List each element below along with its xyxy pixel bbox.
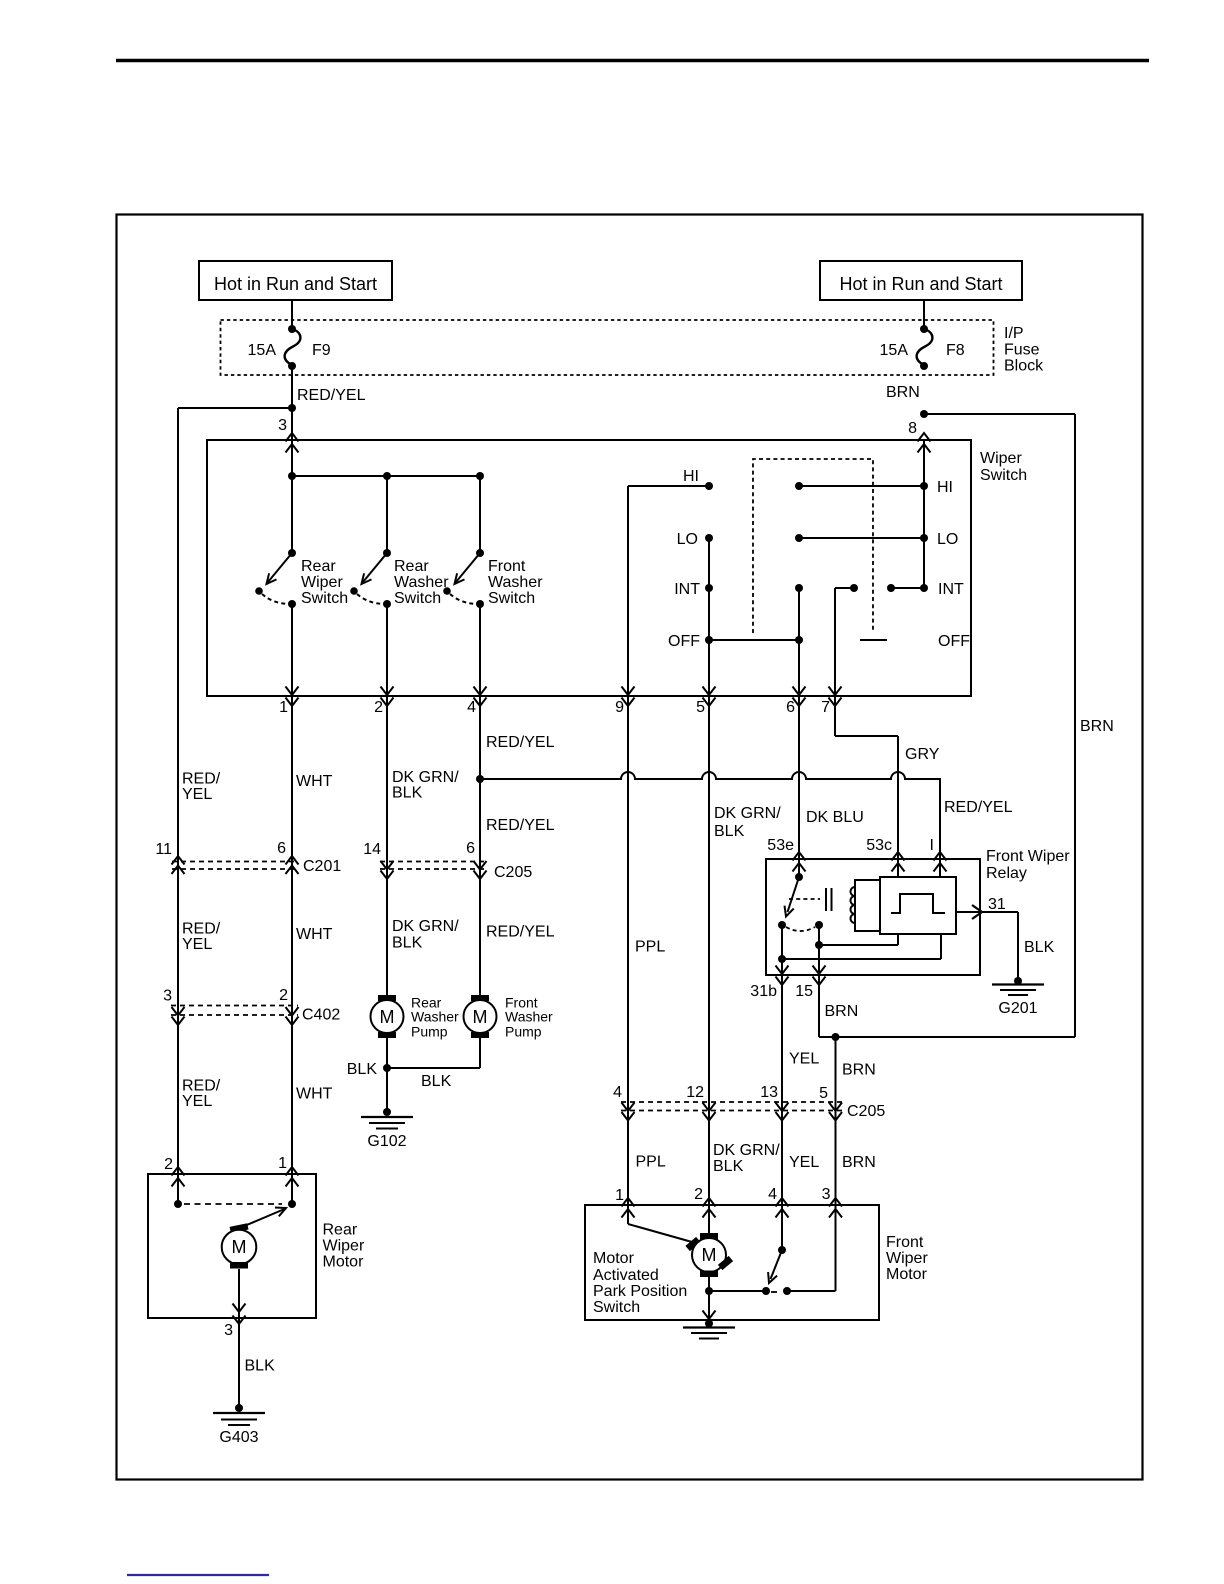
svg-text:BLK: BLK	[392, 785, 423, 802]
svg-text:3: 3	[224, 1322, 233, 1339]
svg-text:C205: C205	[494, 864, 532, 881]
svg-text:OFF: OFF	[668, 633, 700, 650]
svg-text:4: 4	[768, 1186, 777, 1203]
relay timer box	[880, 877, 956, 934]
svg-text:YEL: YEL	[789, 1051, 819, 1068]
svg-text:7: 7	[821, 699, 830, 716]
relay pin I entry	[934, 852, 947, 861]
connector C205 upper dashed rails	[380, 861, 488, 863]
wire pin6 DK BLU down to relay pin 53e	[798, 696, 800, 859]
svg-text:Switch: Switch	[980, 467, 1027, 484]
svg-text:15: 15	[795, 983, 813, 1000]
relay timer pulse waveform	[891, 894, 945, 913]
svg-text:9: 9	[615, 699, 624, 716]
svg-text:F9: F9	[312, 342, 331, 359]
svg-text:BRN: BRN	[1080, 718, 1114, 735]
relay wire to pin 15	[818, 925, 820, 975]
svg-text:2: 2	[279, 987, 288, 1004]
C205 lower pin 12 arrows	[703, 1103, 716, 1112]
svg-text:Washer: Washer	[394, 574, 449, 591]
front motor case ground	[705, 1320, 713, 1328]
svg-text:M: M	[473, 1007, 488, 1027]
svg-text:BLK: BLK	[245, 1358, 276, 1375]
svg-text:6: 6	[786, 699, 795, 716]
svg-text:Wiper: Wiper	[980, 450, 1022, 467]
wire pin1 WHT down to rear wiper motor pin 1	[291, 696, 293, 1174]
wire from left Hot box to fuse F9	[291, 300, 293, 329]
relay contact arm from 53e	[798, 859, 800, 877]
svg-text:RED/: RED/	[182, 921, 221, 938]
svg-text:DK GRN/: DK GRN/	[714, 805, 781, 822]
svg-text:RED/YEL: RED/YEL	[944, 799, 1013, 816]
svg-text:5: 5	[696, 699, 705, 716]
svg-text:G403: G403	[219, 1429, 258, 1446]
svg-text:13: 13	[760, 1084, 778, 1101]
svg-text:C205: C205	[847, 1103, 885, 1120]
wire: pin3 feed inside switch	[291, 440, 293, 553]
svg-text:Switch: Switch	[593, 1299, 640, 1316]
connector C201 dashed rails	[172, 861, 298, 863]
node: BRN junction	[920, 410, 928, 418]
front motor pin 2 entry	[703, 1198, 716, 1207]
svg-text:Rear: Rear	[301, 558, 336, 575]
svg-text:1: 1	[278, 1155, 287, 1172]
connector C402 dashed rails	[171, 1005, 298, 1007]
svg-text:Wiper: Wiper	[301, 574, 343, 591]
wire pin2 DK GRN/BLK down to rear washer pump	[386, 696, 388, 995]
svg-text:31: 31	[988, 896, 1006, 913]
wire BRN branch right and down the right side	[924, 413, 1075, 415]
svg-text:G102: G102	[367, 1133, 406, 1150]
svg-text:Hot in Run and Start: Hot in Run and Start	[214, 274, 377, 294]
svg-text:WHT: WHT	[296, 773, 333, 790]
front motor pin2 lead	[708, 1205, 710, 1233]
svg-text:WHT: WHT	[296, 926, 333, 943]
C205 pin 6 arrows	[474, 861, 487, 870]
common column from pin 8	[923, 440, 925, 588]
svg-text:DK GRN/: DK GRN/	[392, 918, 459, 935]
svg-text:C402: C402	[302, 1007, 340, 1024]
svg-text:BRN: BRN	[886, 384, 920, 401]
front motor ground lead	[708, 1291, 710, 1320]
wire pin5 DK GRN/BLK down to C205 pin 12	[708, 696, 710, 1205]
wire BLK to ground G201	[1017, 912, 1019, 981]
svg-text:Pump: Pump	[505, 1024, 542, 1040]
rear wiper motor M	[230, 1223, 249, 1233]
wire YEL pin 31b down to C205 pin 13	[781, 975, 783, 1205]
svg-text:Fuse: Fuse	[1004, 342, 1040, 359]
svg-text:RED/YEL: RED/YEL	[486, 734, 555, 751]
svg-text:31b: 31b	[750, 983, 777, 1000]
svg-text:15A: 15A	[248, 342, 277, 359]
relay pin 15 exit	[813, 966, 826, 975]
page top rule	[116, 59, 1149, 63]
C201 pin 11 arrows	[172, 856, 185, 865]
svg-text:6: 6	[277, 840, 286, 857]
svg-text:8: 8	[908, 420, 917, 437]
C205 lower pin 4 arrows	[622, 1103, 635, 1112]
exit arrows pins 9 5 6 7	[622, 687, 635, 696]
rear motor pin 1 entry	[286, 1167, 299, 1176]
svg-text:1: 1	[279, 699, 288, 716]
svg-text:OFF: OFF	[938, 633, 970, 650]
C205 pin 14 arrows	[381, 861, 394, 870]
fuse F8 15A	[920, 325, 928, 333]
front motor pin 3 entry	[829, 1198, 842, 1207]
INT row contacts and pin 7	[834, 588, 836, 696]
svg-text:I/P: I/P	[1004, 325, 1024, 342]
svg-text:Wiper: Wiper	[886, 1250, 928, 1267]
svg-text:1: 1	[615, 1187, 624, 1204]
svg-text:Front: Front	[886, 1234, 924, 1251]
svg-text:4: 4	[467, 699, 476, 716]
fuse F9 15A	[288, 325, 296, 333]
svg-text:DK GRN/: DK GRN/	[713, 1142, 780, 1159]
svg-text:Washer: Washer	[488, 574, 543, 591]
svg-text:INT: INT	[674, 581, 700, 598]
svg-text:Switch: Switch	[488, 590, 535, 607]
relay wire to pin 31b	[781, 925, 783, 975]
svg-text:53c: 53c	[866, 837, 892, 854]
svg-text:GRY: GRY	[905, 746, 940, 763]
wire RED/YEL horizontal with hops to relay pin I	[480, 772, 940, 859]
C402 pin 2 arrows	[286, 1007, 299, 1016]
C205 lower pin 5 arrows	[829, 1103, 842, 1112]
rear washer switch contact	[383, 549, 391, 557]
relay output pin 31	[956, 911, 1018, 913]
svg-text:4: 4	[613, 1084, 622, 1101]
svg-text:3: 3	[163, 988, 172, 1005]
intermittent linkage dashed box	[753, 459, 873, 633]
svg-text:WHT: WHT	[296, 1086, 333, 1103]
rear wiper switch contact	[288, 549, 296, 557]
front motor pin 1 entry	[622, 1198, 635, 1207]
front wiper motor box	[585, 1205, 879, 1320]
svg-text:I: I	[930, 837, 934, 854]
svg-text:RED/YEL: RED/YEL	[486, 924, 555, 941]
svg-text:BLK: BLK	[347, 1061, 378, 1078]
svg-text:RED/YEL: RED/YEL	[486, 817, 555, 834]
wire pin7 GRY jog right down to relay pin 53c	[834, 696, 836, 736]
svg-text:BLK: BLK	[714, 823, 745, 840]
front motor pin 4 entry	[776, 1198, 789, 1207]
svg-text:BLK: BLK	[392, 935, 423, 952]
svg-text:PPL: PPL	[635, 939, 665, 956]
front washer pump motor	[471, 995, 489, 1001]
svg-text:YEL: YEL	[182, 936, 212, 953]
relay pin 31b exit	[776, 966, 789, 975]
wire BRN pin 15 down and right join	[818, 975, 820, 1037]
svg-text:BRN: BRN	[825, 1003, 859, 1020]
svg-text:2: 2	[164, 1156, 173, 1173]
svg-text:Relay: Relay	[986, 865, 1027, 882]
svg-text:15A: 15A	[880, 342, 909, 359]
svg-text:Motor: Motor	[593, 1250, 635, 1267]
svg-text:M: M	[702, 1245, 717, 1265]
front washer switch contact	[476, 549, 484, 557]
HI row link middle to common	[795, 482, 803, 490]
relay internal link 31b to timer	[782, 958, 941, 960]
svg-text:Washer: Washer	[505, 1009, 553, 1025]
node: RED/YEL junction	[288, 404, 296, 412]
svg-text:2: 2	[374, 699, 383, 716]
node BRN branch to C205 pin 5	[832, 1033, 840, 1041]
rear motor park switch	[177, 1174, 179, 1204]
svg-text:BRN: BRN	[842, 1062, 876, 1079]
wire RED/YEL from fuse F9	[291, 366, 293, 440]
page bottom blue rule	[127, 1574, 269, 1576]
rear wiper motor box	[148, 1174, 316, 1318]
svg-text:5: 5	[819, 1085, 828, 1102]
svg-text:Activated: Activated	[593, 1267, 659, 1284]
power label box right: Hot in Run and Start	[820, 261, 1022, 300]
svg-text:Washer: Washer	[411, 1009, 459, 1025]
svg-text:Front: Front	[488, 558, 526, 575]
wire BLK from rear pump	[386, 1038, 388, 1112]
intermittent contact bar	[860, 639, 887, 641]
rear motor ground lead pin 3	[238, 1269, 240, 1318]
svg-text:LO: LO	[937, 531, 958, 548]
front wiper relay box	[766, 859, 980, 975]
svg-text:14: 14	[363, 841, 381, 858]
connector C205 lower dashed rails	[621, 1101, 843, 1103]
svg-text:2: 2	[694, 1186, 703, 1203]
I/P fuse block dashed outline	[221, 320, 994, 375]
svg-text:BLK: BLK	[713, 1158, 744, 1175]
relay coil	[855, 880, 880, 931]
svg-text:RED/: RED/	[182, 1078, 221, 1095]
relay pin 53e entry	[793, 852, 806, 861]
wire from right Hot box to fuse F8	[923, 300, 925, 329]
OFF row link to pin 6 column	[709, 639, 799, 641]
svg-text:LO: LO	[677, 531, 698, 548]
ground G201	[1014, 977, 1022, 985]
C205 lower pin 13 arrows	[776, 1103, 789, 1112]
node on pin4 wire RED/YEL branch	[476, 775, 484, 783]
relay actuator dashed link	[789, 898, 820, 900]
relay internal link 15 to timer	[819, 944, 898, 946]
svg-text:PPL: PPL	[636, 1154, 666, 1171]
svg-text:Switch: Switch	[301, 590, 348, 607]
svg-text:DK BLU: DK BLU	[806, 809, 864, 826]
svg-text:HI: HI	[937, 479, 953, 496]
svg-text:YEL: YEL	[789, 1154, 819, 1171]
svg-text:Rear: Rear	[394, 558, 429, 575]
svg-text:11: 11	[155, 841, 172, 858]
svg-text:INT: INT	[938, 581, 964, 598]
LO row link middle to common	[795, 534, 803, 542]
svg-text:RED/: RED/	[182, 771, 221, 788]
power label box left: Hot in Run and Start	[199, 261, 392, 300]
svg-text:DK GRN/: DK GRN/	[392, 769, 459, 786]
pin 8 entry arrows	[918, 433, 931, 442]
relay contact dots and dashed throw	[778, 921, 786, 929]
wire pin4 RED/YEL down to front washer pump	[479, 696, 481, 995]
ground G403	[235, 1404, 243, 1412]
svg-text:RED/YEL: RED/YEL	[297, 387, 366, 404]
svg-text:Hot in Run and Start: Hot in Run and Start	[839, 274, 1002, 294]
pin 3 entry arrows	[286, 433, 299, 442]
svg-text:3: 3	[822, 1186, 831, 1203]
front motor pin1 lead to brush	[627, 1205, 629, 1224]
ground G102	[383, 1108, 391, 1116]
motor activated park position switch	[708, 1272, 710, 1291]
svg-text:Motor: Motor	[323, 1254, 365, 1271]
svg-text:BRN: BRN	[842, 1154, 876, 1171]
svg-text:6: 6	[466, 840, 475, 857]
svg-text:Front Wiper: Front Wiper	[986, 848, 1070, 865]
svg-text:G201: G201	[998, 1000, 1037, 1017]
rear washer pump motor	[378, 995, 396, 1001]
svg-text:53e: 53e	[767, 837, 794, 854]
diagram outer frame	[117, 215, 1143, 1480]
svg-text:Switch: Switch	[394, 590, 441, 607]
relay wires 53c and I to timer	[897, 859, 899, 877]
svg-text:Motor: Motor	[886, 1266, 928, 1283]
wire RED/YEL branch to left, down to rear wiper motor pin 2	[178, 407, 292, 409]
svg-text:M: M	[380, 1007, 395, 1027]
svg-text:BLK: BLK	[421, 1073, 452, 1090]
wire pin9 PPL down to C205 pin 4	[627, 696, 629, 1205]
svg-text:HI: HI	[683, 468, 699, 485]
svg-text:M: M	[232, 1237, 247, 1257]
svg-text:BLK: BLK	[1024, 939, 1055, 956]
svg-text:Block: Block	[1004, 358, 1044, 375]
svg-text:3: 3	[278, 417, 287, 434]
svg-text:F8: F8	[946, 342, 965, 359]
rear motor pin 2 entry	[172, 1167, 185, 1176]
svg-text:Wiper: Wiper	[323, 1238, 365, 1255]
svg-text:Park Position: Park Position	[593, 1283, 687, 1300]
svg-text:12: 12	[686, 1084, 704, 1101]
svg-text:Rear: Rear	[323, 1222, 358, 1239]
relay pin 53c entry	[892, 852, 905, 861]
wire BLK to ground G403	[238, 1318, 240, 1408]
exit arrows pins 1 2 4	[286, 687, 299, 696]
C402 pin 3 arrows	[172, 1007, 185, 1016]
svg-text:Pump: Pump	[411, 1024, 448, 1040]
svg-text:C201: C201	[303, 858, 341, 875]
wire BLK from front pump joining	[479, 1038, 481, 1068]
svg-text:YEL: YEL	[182, 786, 212, 803]
pin 6 column INT/OFF dots	[795, 584, 803, 592]
front wiper motor M	[700, 1233, 718, 1240]
svg-text:YEL: YEL	[182, 1093, 212, 1110]
C201 pin 6 arrows	[286, 856, 299, 865]
wiper switch box	[207, 440, 971, 696]
relay actuator plates	[825, 888, 827, 911]
